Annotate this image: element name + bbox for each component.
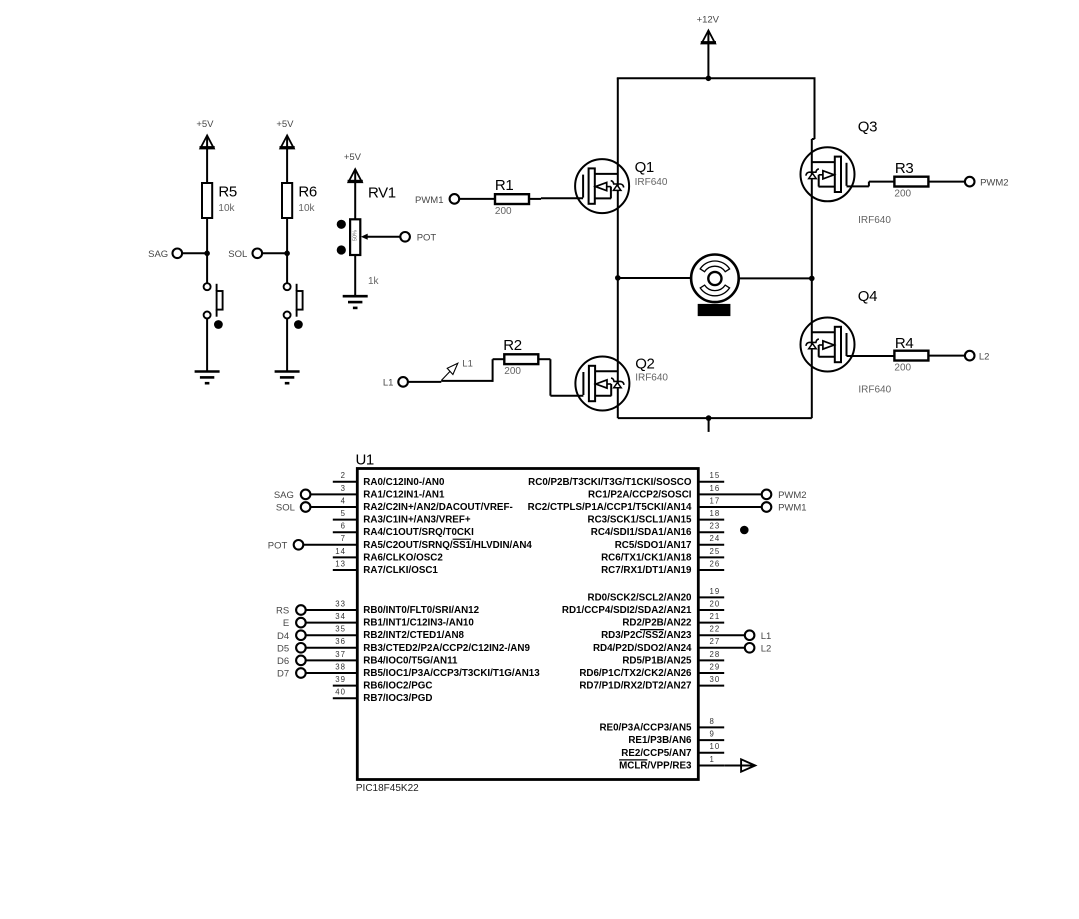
svg-text:RC2/CTPLS/P1A/CCP1/T5CKI/AN14: RC2/CTPLS/P1A/CCP1/T5CKI/AN14 — [528, 502, 692, 513]
wire +12V stem to rail — [707, 44, 709, 79]
svg-text:RA0/C12IN0-/AN0: RA0/C12IN0-/AN0 — [363, 477, 445, 488]
U1 pin 4 (RA2/C2IN+/AN2/DACOUT/VREF-) — [276, 496, 513, 513]
power symbol +12V — [701, 31, 716, 45]
wire R3 to PWM2 terminal — [928, 181, 965, 183]
wire R1 to Q1 gate — [529, 198, 541, 200]
svg-text:R2: R2 — [503, 337, 521, 354]
svg-text:RC4/SDI1/SDA1/AN16: RC4/SDI1/SDA1/AN16 — [591, 527, 692, 538]
motor M1 — [691, 254, 739, 316]
svg-text:35: 35 — [335, 625, 346, 634]
svg-text:PWM2: PWM2 — [778, 490, 807, 501]
svg-text:+5V: +5V — [196, 119, 214, 130]
svg-text:RD0/SCK2/SCL2/AN20: RD0/SCK2/SCL2/AN20 — [588, 592, 693, 603]
svg-text:R6: R6 — [298, 183, 316, 200]
wire R4 to L2 terminal — [928, 355, 965, 357]
svg-text:D6: D6 — [277, 656, 289, 667]
svg-text:RB6/IOC2/PGC: RB6/IOC2/PGC — [363, 681, 432, 692]
U1 pin 34 (RB1/INT1/C12IN3-/AN10) — [283, 612, 475, 629]
push button SW1 — [204, 283, 223, 329]
svg-text:RC0/P2B/T3CKI/T3G/T1CKI/SOSCO: RC0/P2B/T3CKI/T3G/T1CKI/SOSCO — [528, 477, 692, 488]
svg-text:RC7/RX1/DT1/AN19: RC7/RX1/DT1/AN19 — [601, 565, 692, 576]
svg-text:3: 3 — [341, 484, 346, 493]
svg-text:RA6/CLKO/OSC2: RA6/CLKO/OSC2 — [363, 552, 443, 563]
overline SS2 (pin 22 name) — [640, 629, 664, 631]
U1 pin 3 (RA1/C12IN1-/AN1) — [274, 484, 445, 501]
svg-text:IRF640: IRF640 — [858, 385, 891, 396]
svg-text:36: 36 — [335, 637, 346, 646]
svg-text:SOL: SOL — [276, 503, 295, 514]
svg-text:22: 22 — [710, 625, 721, 634]
svg-text:MCLR/VPP/RE3: MCLR/VPP/RE3 — [619, 761, 692, 772]
svg-text:7: 7 — [341, 534, 346, 543]
svg-text:23: 23 — [710, 522, 721, 531]
svg-text:Q3: Q3 — [858, 119, 877, 136]
U1 pin 24 (RC5/SDO1/AN17) — [615, 534, 724, 551]
terminal POT (wiper) — [400, 232, 410, 242]
svg-text:30: 30 — [710, 675, 721, 684]
ground (R6 branch) — [275, 372, 300, 384]
U1 pin 25 (RC6/TX1/CK1/AN18) — [601, 547, 724, 564]
svg-text:SAG: SAG — [148, 249, 168, 260]
svg-text:RB5/IOC1/P3A/CCP3/T3CKI/T1G/AN: RB5/IOC1/P3A/CCP3/T3CKI/T1G/AN13 — [363, 668, 540, 679]
U1 pin 2 (RA0/C12IN0-/AN0) — [333, 471, 445, 488]
wire label arrow L1 — [441, 359, 473, 381]
svg-text:E: E — [283, 618, 289, 629]
U1 pin 15 (RC0/P2B/T3CKI/T3G/T1CKI/SOSCO) — [528, 471, 724, 488]
svg-text:200: 200 — [495, 206, 512, 217]
terminal L1 (lower-left gate input) — [398, 377, 408, 387]
wire right bridge jog — [812, 138, 815, 140]
junction motor right node — [809, 276, 815, 282]
U1 pin 5 (RA3/C1IN+/AN3/VREF+) — [333, 509, 471, 526]
wire Q3 gate to R3 — [847, 185, 869, 187]
svg-text:RC3/SCK1/SCL1/AN15: RC3/SCK1/SCL1/AN15 — [588, 515, 693, 526]
resistor R5 — [202, 183, 212, 218]
U1 pin 30 (RD7/P1D/RX2/DT2/AN27) — [579, 675, 724, 692]
wire bottom rail — [618, 417, 812, 419]
U1 pin 27 (RD4/P2D/SDO2/AN24) — [593, 637, 771, 654]
svg-text:RC5/SDO1/AN17: RC5/SDO1/AN17 — [615, 540, 692, 551]
svg-text:13: 13 — [335, 559, 346, 568]
svg-text:RB3/CTED2/P2A/CCP2/C12IN2-/AN9: RB3/CTED2/P2A/CCP2/C12IN2-/AN9 — [363, 643, 530, 654]
floating node dot near pin 23 — [740, 526, 749, 535]
wire right bridge vertical upper — [814, 78, 816, 139]
ground (RV1 branch) — [343, 296, 368, 308]
wire motor to right vertical — [739, 277, 812, 279]
wire jog up to R2 — [492, 359, 494, 382]
svg-text:PWM1: PWM1 — [415, 195, 444, 206]
U1 pin 39 (RB6/IOC2/PGC) — [333, 675, 433, 692]
U1 pin 21 (RD2/P2B/AN22) — [622, 612, 724, 629]
potentiometer RV1 — [337, 219, 401, 255]
wire R5 to switch — [206, 218, 208, 283]
svg-text:14: 14 — [335, 547, 346, 556]
svg-text:+5V: +5V — [344, 152, 362, 163]
svg-text:20: 20 — [710, 599, 721, 608]
U1 pin 40 (RB7/IOC3/PGD) — [333, 688, 433, 705]
svg-text:18: 18 — [710, 509, 721, 518]
power symbol +5V (R6 branch) — [280, 136, 295, 150]
svg-text:RE0/P3A/CCP3/AN5: RE0/P3A/CCP3/AN5 — [599, 722, 692, 733]
svg-text:IRF640: IRF640 — [858, 215, 891, 226]
svg-text:200: 200 — [504, 366, 521, 377]
svg-text:R1: R1 — [495, 177, 513, 194]
svg-text:L1: L1 — [462, 359, 473, 370]
junction motor left node — [615, 275, 621, 281]
svg-text:U1: U1 — [356, 451, 374, 468]
U1 pin 14 (RA6/CLKO/OSC2) — [333, 547, 444, 564]
svg-text:PIC18F45K22: PIC18F45K22 — [356, 783, 419, 794]
svg-text:Q2: Q2 — [635, 356, 654, 373]
junction node SOL — [284, 251, 290, 257]
svg-text:SOL: SOL — [228, 249, 247, 260]
overline MCLR (pin 1 name) — [619, 759, 647, 761]
svg-text:4: 4 — [341, 496, 346, 505]
resistor R1 — [495, 194, 529, 204]
U1 pin 36 (RB3/CTED2/P2A/CCP2/C12IN2-/AN9) — [277, 637, 530, 654]
wire L1 to R2 — [408, 381, 441, 383]
U1 pin 29 (RD6/P1C/TX2/CK2/AN26) — [579, 662, 724, 679]
svg-text:33: 33 — [335, 599, 346, 608]
wire +5V to R5 — [206, 148, 208, 183]
U1 pin 16 (RC1/P2A/CCP2/SOSCI) — [588, 484, 807, 501]
svg-text:38: 38 — [335, 662, 346, 671]
wire left bridge vertical (Q1/Q2 drain-source) — [617, 78, 619, 418]
wire stub below bottom rail — [708, 418, 710, 432]
svg-text:2: 2 — [341, 471, 346, 480]
svg-text:21: 21 — [710, 612, 721, 621]
svg-text:RB0/INT0/FLT0/SRI/AN12: RB0/INT0/FLT0/SRI/AN12 — [363, 605, 479, 616]
transistor Q4 — [801, 318, 855, 372]
U1 pin 37 (RB4/IOC0/T5G/AN11) — [277, 650, 458, 667]
svg-text:RE1/P3B/AN6: RE1/P3B/AN6 — [628, 735, 692, 746]
svg-text:L1: L1 — [383, 377, 394, 388]
svg-text:RD7/P1D/RX2/DT2/AN27: RD7/P1D/RX2/DT2/AN27 — [579, 681, 692, 692]
svg-text:RD1/CCP4/SDI2/SDA2/AN21: RD1/CCP4/SDI2/SDA2/AN21 — [562, 605, 692, 616]
svg-text:24: 24 — [710, 534, 721, 543]
svg-text:17: 17 — [710, 496, 721, 505]
junction node SAG — [204, 251, 210, 257]
svg-text:L2: L2 — [979, 351, 990, 362]
svg-text:RA1/C12IN1-/AN1: RA1/C12IN1-/AN1 — [363, 489, 445, 500]
svg-text:8: 8 — [710, 717, 715, 726]
terminal PWM1 (gate drive input) — [450, 194, 460, 204]
svg-text:RD5/P1B/AN25: RD5/P1B/AN25 — [622, 655, 692, 666]
junction +12V rail — [706, 76, 712, 82]
svg-text:PWM2: PWM2 — [980, 177, 1009, 188]
svg-text:Q1: Q1 — [635, 159, 654, 176]
svg-text:34: 34 — [335, 612, 346, 621]
svg-text:RA7/CLKI/OSC1: RA7/CLKI/OSC1 — [363, 565, 438, 576]
U1 pin 35 (RB2/INT2/CTED1/AN8) — [277, 625, 465, 642]
svg-text:RS: RS — [276, 606, 289, 617]
svg-text:RA5/C2OUT/SRNQ/SS1/HLVDIN/AN4: RA5/C2OUT/SRNQ/SS1/HLVDIN/AN4 — [363, 540, 532, 551]
resistor R6 — [282, 183, 292, 218]
svg-text:IRF640: IRF640 — [635, 177, 668, 188]
U1 pin 19 (RD0/SCK2/SCL2/AN20) — [588, 587, 725, 604]
svg-text:25: 25 — [710, 547, 721, 556]
svg-text:200: 200 — [894, 189, 911, 200]
svg-text:+5V: +5V — [276, 119, 294, 130]
U1 pin 9 (RE1/P3B/AN6) — [628, 730, 724, 747]
svg-text:RV1: RV1 — [368, 184, 396, 201]
svg-text:R3: R3 — [895, 160, 913, 177]
wire left vertical to motor — [618, 277, 691, 279]
svg-text:5: 5 — [341, 509, 346, 518]
svg-text:Q4: Q4 — [858, 288, 877, 305]
wire SAG terminal to node — [182, 252, 207, 254]
junction bottom rail — [706, 415, 712, 421]
ground (R5 branch) — [195, 372, 220, 384]
svg-text:27: 27 — [710, 637, 721, 646]
svg-text:1k: 1k — [368, 276, 380, 287]
svg-text:PWM1: PWM1 — [778, 503, 807, 514]
svg-text:RD4/P2D/SDO2/AN24: RD4/P2D/SDO2/AN24 — [593, 643, 692, 654]
U1 pin 20 (RD1/CCP4/SDI2/SDA2/AN21) — [562, 599, 724, 616]
svg-text:SAG: SAG — [274, 490, 294, 501]
svg-text:RE2/CCP5/AN7: RE2/CCP5/AN7 — [621, 748, 692, 759]
svg-text:IRF640: IRF640 — [635, 372, 668, 383]
svg-text:RC6/TX1/CK1/AN18: RC6/TX1/CK1/AN18 — [601, 552, 692, 563]
svg-text:15: 15 — [710, 471, 721, 480]
U1 pin 10 (RE2/CCP5/AN7) — [621, 742, 724, 759]
svg-text:19: 19 — [710, 587, 721, 596]
svg-text:R5: R5 — [218, 183, 236, 200]
wire Q4 gate to R4 — [847, 355, 895, 357]
svg-text:L2: L2 — [761, 643, 772, 654]
svg-text:39: 39 — [335, 675, 346, 684]
wire SOL terminal to node — [262, 252, 287, 254]
transistor Q3 — [801, 147, 855, 201]
terminal L2 (right) — [965, 351, 975, 361]
svg-text:29: 29 — [710, 662, 721, 671]
svg-text:37: 37 — [335, 650, 346, 659]
U1 pin 26 (RC7/RX1/DT1/AN19) — [601, 559, 724, 576]
wire switch to ground (R5 branch) — [206, 319, 208, 371]
transistor Q1 — [575, 159, 629, 213]
svg-text:50%: 50% — [352, 230, 358, 241]
U1 pin 17 (RC2/CTPLS/P1A/CCP1/T5CKI/AN14) — [528, 496, 807, 513]
wire R2 to Q2 gate — [538, 358, 550, 360]
U1 pin 7 (RA5/C2OUT/SRNQ/SS1/HLVDIN/AN4) — [268, 534, 533, 551]
resistor R2 — [504, 354, 538, 364]
svg-text:1: 1 — [710, 755, 715, 764]
U1 pin 22 (RD3/P2C/SS2/AN23) — [601, 625, 771, 642]
svg-text:RA2/C2IN+/AN2/DACOUT/VREF-: RA2/C2IN+/AN2/DACOUT/VREF- — [363, 502, 512, 513]
resistor R3 — [894, 177, 928, 187]
svg-text:RD6/P1C/TX2/CK2/AN26: RD6/P1C/TX2/CK2/AN26 — [579, 668, 692, 679]
wire PWM1 to R1 — [459, 198, 495, 200]
svg-text:9: 9 — [710, 730, 715, 739]
svg-text:RA3/C1IN+/AN3/VREF+: RA3/C1IN+/AN3/VREF+ — [363, 515, 471, 526]
wire +5V to R6 — [286, 148, 288, 183]
svg-text:RA4/C1OUT/SRQ/T0CKI: RA4/C1OUT/SRQ/T0CKI — [363, 527, 474, 538]
svg-text:10k: 10k — [298, 203, 315, 214]
overline SS1 (pin 7 name) — [453, 538, 472, 540]
svg-text:D4: D4 — [277, 631, 289, 642]
MCLR input arrow — [724, 759, 755, 771]
IC U1 body — [357, 469, 698, 780]
svg-text:POT: POT — [417, 232, 437, 243]
wire switch to ground (R6 branch) — [286, 319, 288, 371]
svg-text:R4: R4 — [895, 335, 913, 352]
resistor R4 — [894, 351, 928, 361]
svg-text:POT: POT — [268, 540, 288, 551]
wire +12V top rail — [617, 77, 816, 79]
svg-text:L1: L1 — [761, 631, 772, 642]
U1 pin 38 (RB5/IOC1/P3A/CCP3/T3CKI/T1G/AN13) — [277, 662, 540, 679]
wire RV1 to ground — [354, 255, 356, 296]
U1 pin 13 (RA7/CLKI/OSC1) — [333, 559, 439, 576]
svg-text:RD2/P2B/AN22: RD2/P2B/AN22 — [622, 618, 692, 629]
U1 pin 8 (RE0/P3A/CCP3/AN5) — [599, 717, 724, 734]
svg-text:RB4/IOC0/T5G/AN11: RB4/IOC0/T5G/AN11 — [363, 655, 458, 666]
svg-text:RD3/P2C/SS2/AN23: RD3/P2C/SS2/AN23 — [601, 630, 692, 641]
svg-text:+12V: +12V — [697, 14, 720, 25]
svg-text:6: 6 — [341, 522, 346, 531]
svg-text:26: 26 — [710, 559, 721, 568]
svg-text:10: 10 — [710, 742, 721, 751]
U1 pin 33 (RB0/INT0/FLT0/SRI/AN12) — [276, 599, 480, 616]
power symbol +5V (R5 branch) — [200, 136, 215, 150]
svg-text:RB2/INT2/CTED1/AN8: RB2/INT2/CTED1/AN8 — [363, 630, 464, 641]
wire R6 to switch — [286, 218, 288, 283]
svg-text:28: 28 — [710, 650, 721, 659]
U1 pin 6 (RA4/C1OUT/SRQ/T0CKI) — [333, 522, 474, 539]
wire right bridge vertical (Q3/Q4 drain-source) — [811, 139, 813, 418]
svg-text:10k: 10k — [218, 203, 235, 214]
svg-text:200: 200 — [894, 363, 911, 374]
U1 pin 23 (RC4/SDI1/SDA1/AN16) — [591, 522, 724, 539]
svg-text:D7: D7 — [277, 669, 289, 680]
svg-text:RB1/INT1/C12IN3-/AN10: RB1/INT1/C12IN3-/AN10 — [363, 618, 474, 629]
svg-text:40: 40 — [335, 688, 346, 697]
terminal SOL — [252, 249, 262, 259]
push button SW2 — [284, 283, 303, 329]
transistor Q2 — [575, 357, 629, 411]
power symbol +5V (RV1 branch) — [348, 169, 363, 183]
wire +5V to RV1 — [354, 182, 356, 219]
svg-text:16: 16 — [710, 484, 721, 493]
terminal SAG — [173, 249, 183, 259]
svg-text:D5: D5 — [277, 643, 289, 654]
U1 pin 18 (RC3/SCK1/SCL1/AN15) — [588, 509, 725, 526]
U1 pin 28 (RD5/P1B/AN25) — [622, 650, 724, 667]
svg-text:RB7/IOC3/PGD: RB7/IOC3/PGD — [363, 693, 432, 704]
terminal PWM2 (right) — [965, 177, 975, 187]
svg-text:RC1/P2A/CCP2/SOSCI: RC1/P2A/CCP2/SOSCI — [588, 489, 692, 500]
U1 pin 1 (MCLR/VPP/RE3) — [619, 755, 724, 772]
